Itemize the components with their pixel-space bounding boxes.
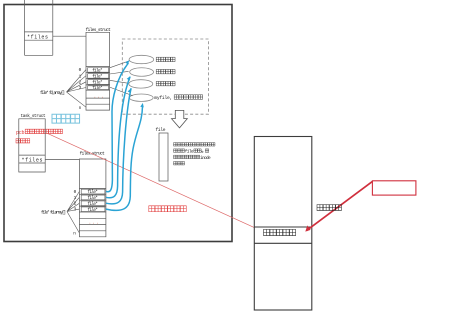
outer frame box (4, 5, 232, 242)
wire fd2 to stderr ellipse (110, 80, 128, 83)
indices 0-3 and n (top table) (79, 68, 82, 111)
wire parent *files to files_struct (53, 35, 86, 37)
ellipse file object 1 (129, 55, 154, 63)
svg-text:*files: *files (22, 158, 43, 164)
svg-text:0: 0 (79, 68, 82, 73)
indices 0-3 and n (child table) (73, 190, 76, 237)
red pointer line from pcb note to code+data cell (47, 133, 254, 227)
wire fd3 to myfile ellipse (110, 87, 133, 96)
svg-text:inode: inode (200, 156, 211, 161)
svg-text:file*: file* (88, 190, 98, 195)
ellipse file object 2 (130, 68, 154, 77)
fan lines (child) (67, 191, 79, 233)
red label kernel data structures (149, 206, 186, 212)
child task_struct table (19, 119, 45, 172)
svg-text:file*: file* (92, 86, 102, 91)
note text: each open file has a file object in kernel (174, 143, 215, 146)
child files_struct table (79, 159, 106, 237)
svg-text:n: n (73, 232, 76, 237)
code and data cell (254, 227, 311, 243)
cyan arrow fd2 child to file object (106, 88, 131, 204)
svg-text:task_struct: task_struct (21, 114, 47, 119)
svg-text:file*: file* (88, 202, 98, 207)
dashed container box (122, 39, 208, 114)
svg-text:file*: file* (88, 208, 98, 213)
wire fd0 to stdin ellipse (110, 61, 130, 68)
cyan arrow fd3 child to file object (106, 106, 143, 210)
svg-text:file* fd_array[]: file* fd_array[] (40, 91, 65, 96)
parent task_struct table (25, 0, 53, 55)
svg-text:...: ... (89, 220, 100, 225)
svg-text:n: n (79, 106, 82, 111)
red arrow from program image box to code cell (307, 181, 373, 230)
svg-text:file* fd_array[]: file* fd_array[] (41, 210, 66, 215)
hollow down block arrow (172, 110, 188, 128)
svg-text:myfile,: myfile, (154, 95, 172, 101)
cyan arrow fd1 child to file object (106, 77, 130, 198)
cyan arrow fd0 child to file object (106, 63, 128, 192)
fan lines (top) (67, 70, 87, 108)
svg-text:file*: file* (88, 196, 98, 201)
label cheng xu jing xiang (program image) (317, 205, 341, 211)
svg-text:...: ... (94, 94, 105, 99)
svg-text:file*: file* (92, 81, 102, 86)
label dai ma he shu ju (code and data) (264, 229, 296, 235)
svg-text:file: file (185, 150, 194, 155)
svg-text:*files: *files (27, 35, 48, 41)
label biao zhun shu ru (156, 57, 175, 61)
cyan label zi jin cheng (child process) (52, 114, 80, 123)
process image tall box (254, 137, 311, 311)
svg-text:file*: file* (92, 68, 102, 73)
svg-text:file*: file* (92, 74, 102, 79)
svg-text:0: 0 (74, 190, 77, 195)
wire child *files to files_struct (45, 159, 79, 161)
label biao zhun cuo wu (156, 81, 175, 85)
file object box (159, 133, 168, 181)
label biao zhun shu chu (156, 69, 175, 73)
ellipse file object 4 (129, 94, 153, 101)
top files_struct table (86, 32, 110, 110)
wire fd1 to stdout ellipse (110, 71, 129, 74)
svg-text:file: file (156, 127, 166, 133)
ellipse file object 3 (129, 80, 153, 88)
svg-text:pcb: pcb (16, 130, 25, 136)
red program image box (372, 181, 416, 195)
